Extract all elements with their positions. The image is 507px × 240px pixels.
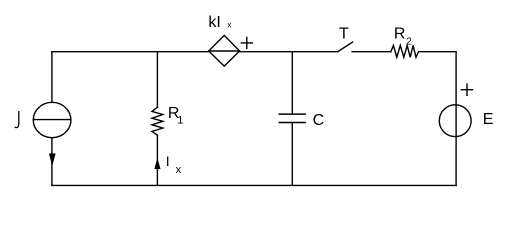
- svg-text:kI: kI: [208, 14, 220, 31]
- svg-text:C: C: [313, 112, 325, 129]
- svg-text:2: 2: [406, 36, 412, 47]
- svg-text:R: R: [394, 26, 406, 43]
- svg-text:x: x: [227, 19, 232, 29]
- svg-text:T: T: [339, 25, 349, 42]
- svg-text:1: 1: [177, 114, 183, 126]
- svg-text:E: E: [483, 111, 494, 128]
- svg-text:I: I: [166, 153, 170, 169]
- svg-text:x: x: [176, 164, 182, 176]
